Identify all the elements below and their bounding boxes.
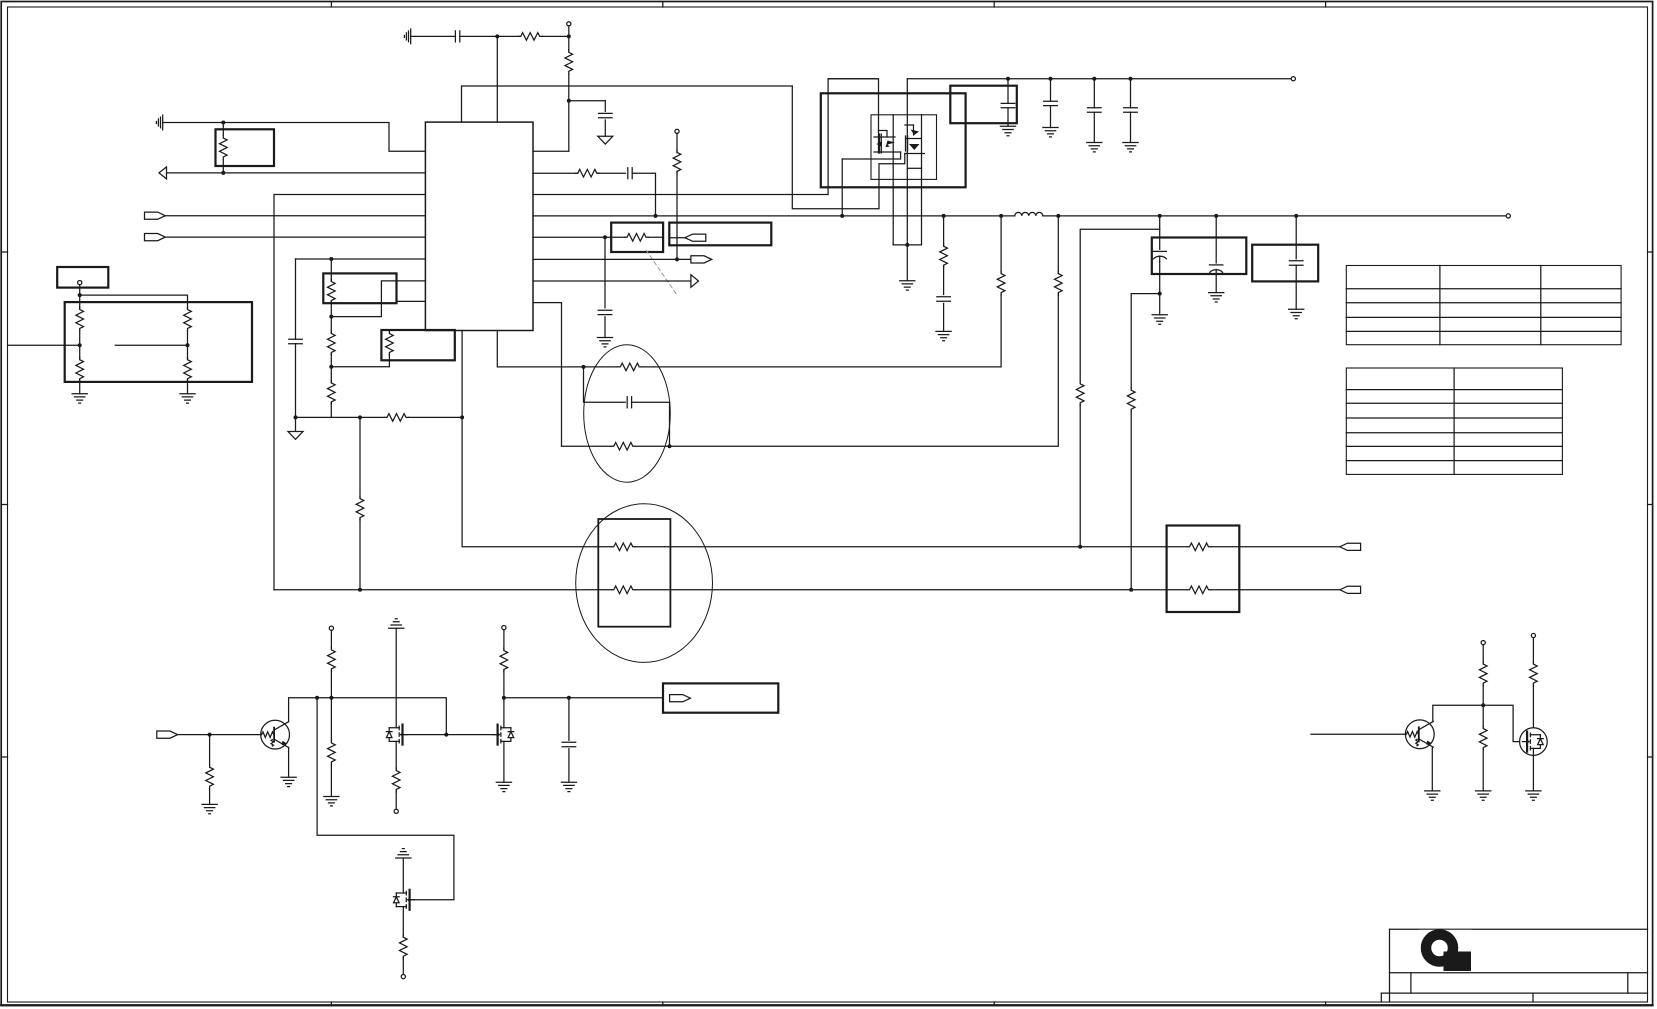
resistor R21 [940, 244, 948, 268]
capacitor C1 [455, 31, 459, 42]
wire [503, 741, 505, 782]
wire [568, 36, 570, 51]
capacitor C9 [1088, 108, 1102, 112]
table revision history [1346, 266, 1621, 345]
terminal [401, 975, 405, 979]
wire [1130, 412, 1132, 590]
wire [1093, 79, 1095, 108]
wire [1311, 733, 1406, 735]
resistor R20 [1055, 271, 1063, 295]
resistor R7 [184, 357, 192, 381]
node [942, 214, 946, 218]
resistor R28 [206, 765, 214, 789]
resistor R18 [611, 442, 635, 450]
node [78, 343, 82, 347]
wire [503, 670, 505, 728]
net flag IN2 [145, 234, 166, 241]
terminal [329, 626, 333, 630]
wire [209, 735, 211, 765]
wire [1532, 684, 1534, 735]
wire route [317, 698, 454, 900]
ground [1526, 791, 1541, 800]
wire bus VOUT [533, 215, 1506, 217]
resistor R27 [1187, 586, 1211, 594]
ground [1123, 143, 1138, 152]
resistor R32 [500, 648, 508, 672]
resistor R33 [400, 935, 408, 959]
resistor R1 [518, 33, 542, 41]
resistor R23 [1127, 388, 1135, 412]
wire [676, 133, 678, 152]
node [329, 257, 333, 261]
wire [632, 173, 655, 216]
wire [792, 86, 905, 209]
net flag VR [670, 695, 691, 702]
capacitor C11 [937, 297, 951, 301]
wire net B [497, 294, 1001, 367]
wire [330, 630, 332, 647]
resistor R9 [328, 331, 336, 355]
resistor R30 [328, 740, 336, 764]
wire [395, 791, 397, 809]
wire [568, 74, 570, 101]
mosfet Q7 [1520, 728, 1548, 756]
wire [533, 172, 577, 174]
resistor R24 [611, 543, 635, 551]
resistor R15 [673, 150, 681, 174]
ground [1425, 791, 1440, 800]
node [1056, 214, 1060, 218]
resistor R29 [328, 647, 336, 671]
resistor R25 [611, 586, 635, 594]
wire [165, 236, 425, 238]
wire [178, 734, 261, 736]
net flag DM [1340, 586, 1361, 593]
wire [395, 741, 397, 769]
wire [115, 344, 187, 346]
wire net D [462, 331, 1187, 547]
capacitor C14 [1289, 261, 1303, 265]
node [654, 214, 658, 218]
terminal [502, 626, 506, 630]
wire [569, 100, 606, 102]
wire [395, 628, 397, 728]
terminal [1291, 77, 1295, 81]
wire net D2 [1211, 546, 1340, 548]
wire [167, 172, 426, 174]
net arrow right [691, 275, 699, 288]
component box RN4 [1167, 526, 1240, 613]
node [1006, 77, 1010, 81]
resistor R10 [328, 380, 336, 404]
node [315, 696, 319, 700]
node [567, 696, 571, 700]
ellipse group 2 [576, 504, 713, 663]
wire [1215, 216, 1217, 263]
wire [1482, 684, 1484, 727]
resistor R16 [625, 234, 649, 242]
ground [281, 777, 296, 786]
resistor R11 [386, 331, 394, 355]
wire [907, 167, 921, 169]
mosfet Q5 [493, 725, 514, 745]
net flag TP1 [685, 234, 706, 241]
transistor Q3B [905, 139, 925, 154]
net flag EN [157, 731, 178, 738]
component box RP1 [216, 129, 275, 166]
node [567, 34, 571, 38]
wire [1130, 294, 1132, 388]
terminal [675, 129, 679, 133]
resistor R26 [1187, 543, 1211, 551]
terminal [1481, 641, 1485, 645]
resistor R13 [356, 496, 364, 520]
wire [80, 295, 188, 308]
wire [605, 236, 625, 238]
wire rail VIN [828, 78, 878, 80]
wire [359, 519, 361, 590]
component box R16 [611, 223, 663, 252]
wire [1000, 216, 1002, 272]
wire [1532, 638, 1534, 663]
terminal [567, 22, 571, 26]
node [460, 415, 464, 419]
wire [411, 35, 456, 37]
connector J1 [57, 267, 108, 288]
terminal [394, 809, 398, 813]
node [668, 444, 672, 448]
wire [943, 216, 945, 246]
logo Q [1420, 930, 1472, 972]
wire net FB [296, 416, 385, 418]
wire [8, 344, 80, 346]
ground [324, 797, 339, 806]
wire [503, 630, 505, 650]
wire [1532, 748, 1534, 791]
resistor R5 [76, 357, 84, 381]
wire [604, 237, 606, 307]
wire [1130, 112, 1132, 142]
resistor R14 [575, 169, 599, 177]
transistor Q1 [261, 720, 290, 749]
wire [584, 367, 626, 402]
wire net C [533, 303, 562, 447]
node [221, 171, 225, 175]
wire [906, 79, 908, 245]
ellipse group 1 [584, 345, 671, 482]
ground [561, 782, 576, 791]
wire [1007, 108, 1009, 127]
resistor R35 [1479, 726, 1487, 750]
net arrow left [159, 167, 167, 179]
capacitor C15 [562, 742, 576, 746]
node [358, 415, 362, 419]
wire [1159, 294, 1161, 315]
ground above [396, 849, 411, 858]
wire [943, 266, 945, 295]
ground [202, 804, 217, 813]
border bottom edge [1, 1004, 1652, 1006]
node [840, 214, 844, 218]
wire [943, 303, 945, 331]
wire [669, 237, 685, 239]
capacitor C8 [1044, 101, 1058, 105]
wire [330, 671, 332, 740]
wire [568, 698, 570, 741]
wire [397, 300, 426, 302]
wire [1159, 256, 1161, 294]
wire [402, 957, 404, 974]
wire [209, 789, 211, 804]
wire [921, 115, 923, 245]
resistor R31 [392, 768, 400, 792]
wire [331, 281, 425, 317]
table options [1346, 368, 1562, 474]
node [294, 415, 298, 419]
wire [1007, 79, 1009, 104]
mosfet Q4 [386, 725, 407, 745]
resistor R22 [1076, 381, 1084, 405]
ground [180, 394, 195, 403]
capacitor C6 [627, 397, 631, 408]
chassis ground AGND1 [404, 29, 410, 44]
wire [1131, 293, 1160, 295]
inner box Q3 [871, 115, 937, 180]
node [999, 214, 1003, 218]
wire [274, 195, 425, 590]
wire net E2 [1211, 589, 1340, 591]
node [444, 733, 448, 737]
dashed line [646, 250, 677, 295]
wire [330, 354, 332, 383]
node [329, 315, 333, 319]
resistor R19 [997, 271, 1005, 295]
component box RN1 [323, 273, 396, 303]
inductor L1 [1015, 212, 1043, 216]
capacitor C2 [599, 113, 613, 117]
border ticks [330, 2, 332, 8]
node [208, 733, 212, 737]
node [603, 235, 607, 239]
wire [1295, 216, 1297, 259]
wire [568, 101, 570, 151]
wire [165, 215, 425, 217]
capacitor C4 [628, 168, 632, 179]
resistor R6 [184, 307, 192, 331]
wire [1431, 747, 1433, 791]
wire [598, 172, 626, 174]
capacitor C7 [1001, 103, 1015, 107]
resistor R2 [565, 50, 573, 74]
wire [402, 858, 404, 893]
wire [604, 317, 606, 338]
wire [330, 259, 332, 281]
node [1129, 588, 1133, 592]
title block [1390, 928, 1648, 930]
wire [1482, 749, 1484, 791]
resistor R4 [76, 307, 84, 331]
component box CN2 [1152, 238, 1247, 275]
wire [1215, 270, 1217, 293]
wire net C2 [562, 294, 1059, 446]
capacitor C5 [598, 310, 612, 314]
component box CN4 [663, 683, 778, 712]
wire [1057, 216, 1059, 272]
node [1129, 77, 1133, 81]
IC U1 [425, 122, 533, 330]
wire [289, 698, 447, 735]
resistor R36 [1530, 662, 1538, 686]
wire [1159, 229, 1161, 249]
wire [409, 416, 463, 418]
wire [905, 125, 914, 131]
node [1092, 77, 1096, 81]
wire net E [274, 589, 1187, 591]
node [1158, 214, 1162, 218]
node [221, 121, 225, 125]
resistor R8 [328, 279, 336, 303]
ground [72, 394, 87, 403]
node [1481, 703, 1485, 707]
component box CN3 [1252, 245, 1318, 282]
wire [1093, 112, 1095, 142]
wire [296, 258, 426, 260]
wire [288, 748, 290, 778]
wire [568, 26, 570, 37]
wire [1433, 705, 1520, 741]
wire [359, 417, 361, 497]
node [1158, 292, 1162, 296]
ground [1087, 143, 1102, 152]
mosfet Q6 [394, 890, 415, 910]
ground [1476, 791, 1491, 800]
node [78, 293, 82, 297]
wire [1050, 79, 1052, 102]
node [675, 257, 679, 261]
node [567, 99, 571, 103]
capacitor C3 [289, 339, 303, 343]
ground [1000, 126, 1015, 135]
ground [1152, 315, 1167, 324]
resistor R3 [220, 136, 228, 160]
node [502, 696, 506, 700]
terminal [1506, 214, 1510, 218]
node [582, 365, 586, 369]
wire gate [403, 734, 497, 736]
node [1049, 77, 1053, 81]
wire [1482, 645, 1484, 663]
wire [330, 301, 332, 332]
wire [906, 245, 908, 281]
component box U3 [950, 86, 1017, 124]
wire rail2 [504, 697, 663, 699]
node [329, 696, 333, 700]
node [358, 588, 362, 592]
wire [604, 120, 606, 136]
component box Q3 [821, 93, 966, 187]
ground [496, 782, 511, 791]
power ground [598, 136, 613, 144]
node [329, 365, 333, 369]
component box RN2 [381, 330, 454, 360]
wire [187, 380, 189, 394]
node [186, 343, 190, 347]
wire [295, 259, 297, 339]
component box CN1 [669, 223, 771, 246]
wire [402, 907, 404, 937]
polar capacitor C12 [1153, 250, 1166, 252]
wire net SW [533, 79, 879, 195]
wire [79, 380, 81, 394]
wire [842, 152, 900, 159]
resistor R17 [618, 363, 642, 371]
ground [900, 281, 915, 290]
capacitor C10 [1124, 108, 1138, 112]
net flag IN1 [145, 212, 166, 219]
ground above [389, 619, 404, 628]
wire [460, 35, 519, 37]
ground [1289, 309, 1304, 318]
wire [632, 402, 670, 446]
terminal [1531, 633, 1535, 637]
wire [676, 171, 678, 259]
node [905, 243, 909, 247]
ground [1043, 128, 1058, 137]
wire rail VIN2 [907, 78, 1291, 80]
wire [879, 131, 888, 138]
wire [648, 236, 663, 238]
wire [330, 764, 332, 796]
wire [496, 36, 498, 122]
ground [1209, 293, 1224, 302]
wire [295, 344, 297, 432]
node [1214, 214, 1218, 218]
node [495, 34, 499, 38]
wire [79, 331, 81, 359]
wire [893, 244, 921, 246]
wire [1050, 106, 1052, 128]
node [1078, 545, 1082, 549]
wire [533, 258, 691, 260]
terminal [78, 281, 82, 285]
wire [163, 123, 426, 152]
wire [533, 236, 605, 238]
component box U2 [65, 302, 252, 382]
wire [1079, 405, 1081, 547]
resistor R12 [385, 414, 409, 422]
wire [1295, 265, 1297, 309]
net flag DP [1340, 543, 1361, 550]
wire [542, 35, 569, 37]
wire [841, 159, 843, 216]
chassis ground AGND2 [156, 115, 162, 130]
wire [1130, 79, 1132, 108]
wire to box [1080, 216, 1160, 382]
polar capacitor C13 [1210, 264, 1223, 266]
component box RN3 [598, 519, 670, 627]
resistor R34 [1479, 662, 1487, 686]
ground [597, 338, 612, 347]
net flag OUT1 [691, 256, 712, 263]
transistor Q2 [1405, 720, 1434, 749]
wire [187, 331, 189, 359]
wire VCC bus [462, 86, 793, 122]
wire [533, 280, 691, 282]
wire [331, 330, 389, 367]
wire [330, 402, 332, 417]
wire [79, 285, 81, 309]
power ground [288, 432, 303, 440]
